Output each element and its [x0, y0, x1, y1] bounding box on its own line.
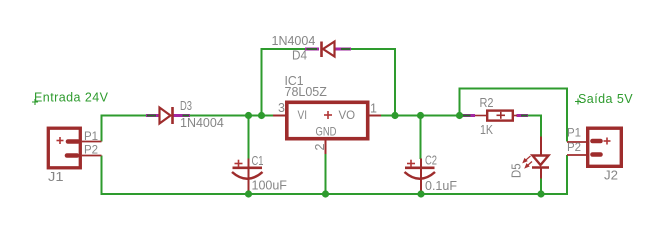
svg-text:0.1uF: 0.1uF — [425, 179, 457, 193]
svg-text:P1: P1 — [567, 128, 581, 140]
svg-text:Entrada 24V: Entrada 24V — [34, 91, 109, 105]
svg-text:J1: J1 — [48, 169, 64, 184]
svg-text:1: 1 — [370, 102, 377, 116]
svg-text:J2: J2 — [604, 168, 618, 183]
svg-text:GND: GND — [316, 127, 337, 139]
svg-text:1N4004: 1N4004 — [180, 116, 224, 130]
svg-text:D4: D4 — [292, 49, 307, 63]
svg-text:P1: P1 — [84, 131, 98, 143]
svg-text:P2: P2 — [567, 142, 581, 154]
svg-text:3: 3 — [278, 101, 285, 115]
svg-text:C2: C2 — [425, 154, 437, 168]
svg-text:D3: D3 — [180, 99, 192, 113]
svg-text:78L05Z: 78L05Z — [285, 85, 328, 99]
svg-text:P2: P2 — [84, 145, 98, 157]
svg-text:Saída 5V: Saída 5V — [578, 92, 633, 106]
svg-text:VO: VO — [339, 110, 356, 122]
svg-text:2: 2 — [313, 144, 327, 151]
svg-text:1N4004: 1N4004 — [272, 34, 316, 48]
svg-text:VI: VI — [298, 110, 308, 122]
svg-text:R2: R2 — [480, 96, 494, 110]
svg-text:100uF: 100uF — [252, 179, 288, 193]
svg-text:D5: D5 — [510, 163, 524, 178]
svg-text:1K: 1K — [480, 123, 494, 137]
svg-text:C1: C1 — [252, 154, 264, 168]
